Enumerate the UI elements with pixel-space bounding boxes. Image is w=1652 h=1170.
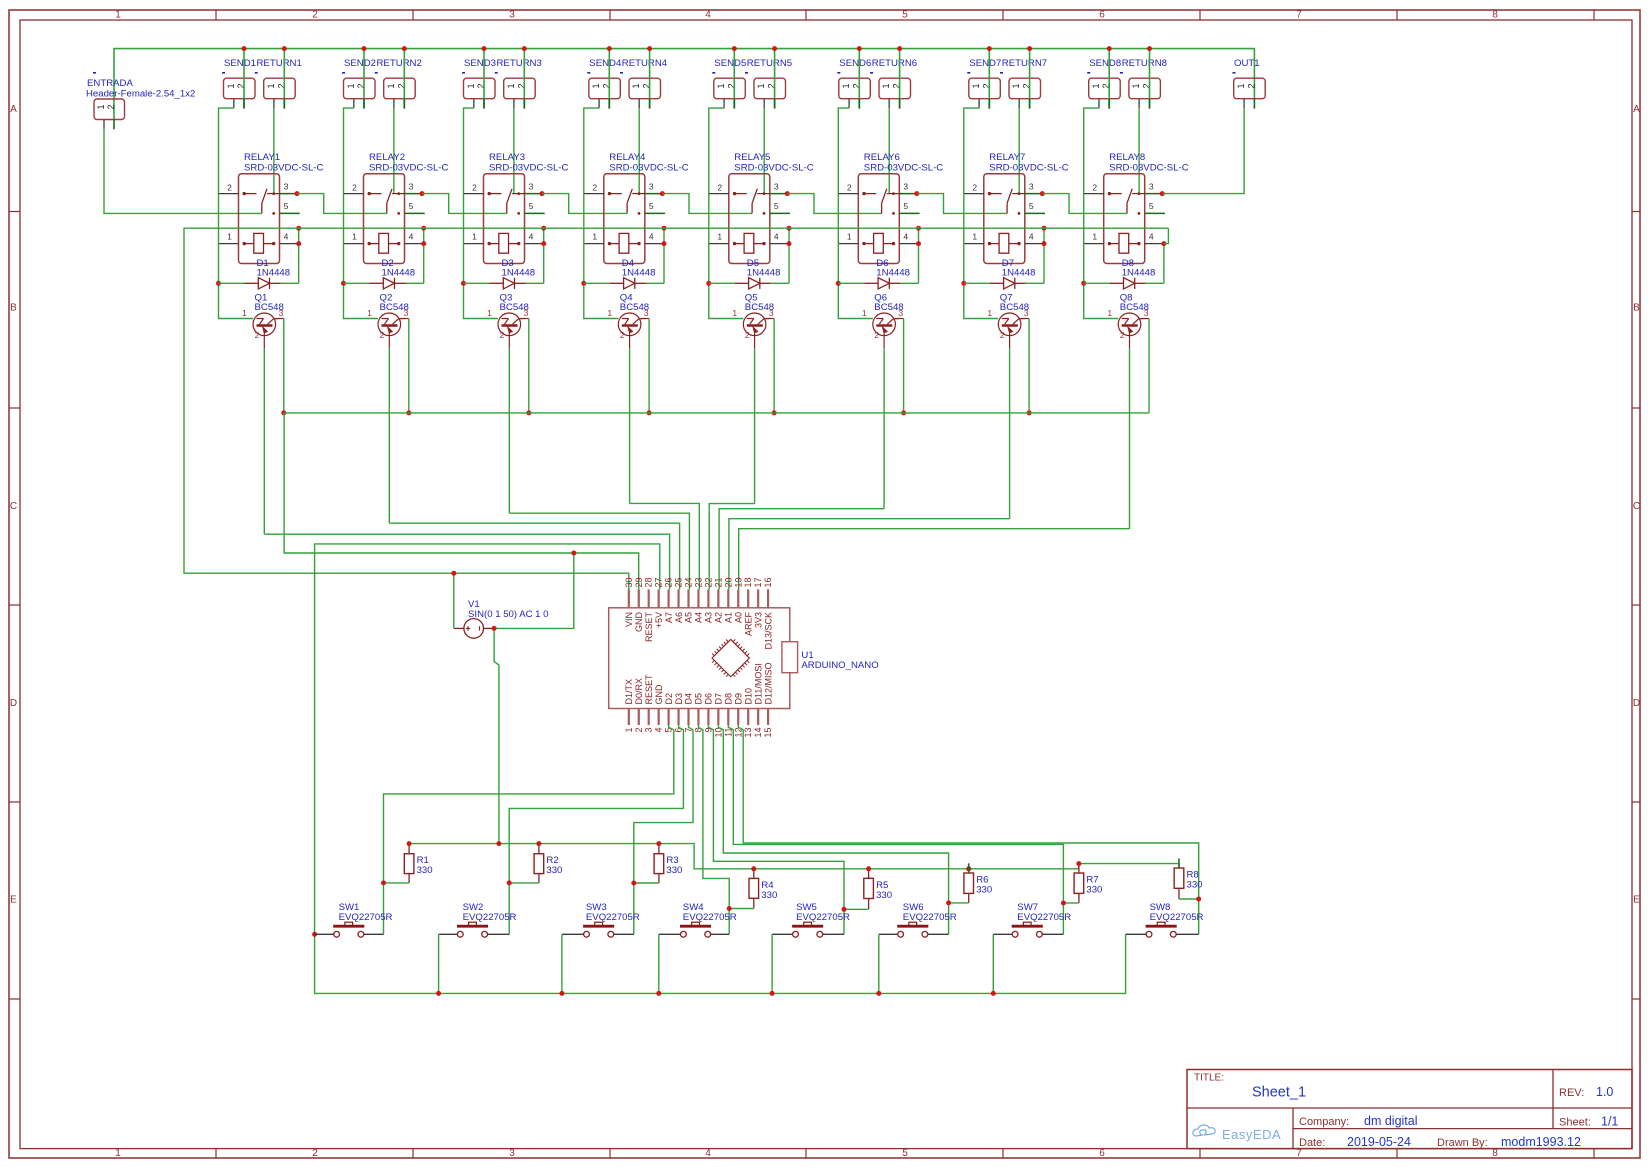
svg-text:A7: A7 — [664, 612, 674, 623]
svg-text:EVQ22705R: EVQ22705R — [796, 912, 850, 923]
junction at RELAY3 pin3 — [540, 191, 545, 196]
junction on top bus at RETURN1 pin2 — [282, 46, 287, 51]
wire: Arduino D3 to R2/SW2 junction — [509, 725, 683, 934]
connector RETURN7 — [1000, 58, 1047, 99]
junction collector bus Q6 — [901, 410, 906, 415]
svg-text:330: 330 — [546, 865, 562, 876]
svg-text:RETURN5: RETURN5 — [747, 58, 792, 69]
connector SEND6 — [837, 58, 871, 99]
RELAY8 pin 2 — [1084, 193, 1104, 195]
svg-text:E: E — [10, 895, 17, 906]
wire: D1 anode link — [219, 282, 245, 284]
U1 pin 21 A2 — [713, 577, 723, 623]
wire: D5 anode link — [709, 282, 735, 284]
svg-text:1: 1 — [1011, 83, 1021, 88]
U1 pin 2 D0/RX — [634, 678, 644, 733]
relay RELAY7 SRD-03VDC-SL-C — [984, 152, 1069, 264]
RETURN4 pin2 stub — [649, 99, 651, 109]
wire: R5 bottom to SW5 — [844, 908, 869, 910]
junction at D3 anode — [461, 281, 466, 286]
junction at RELAY1 pin4 — [296, 241, 301, 246]
junction on top bus at RETURN8 pin2 — [1147, 46, 1152, 51]
connector RETURN4 — [620, 58, 668, 99]
wire: RETURN1 pin1 down to RELAY1 pin3 — [273, 108, 275, 194]
svg-text:3: 3 — [1024, 308, 1029, 318]
wire: D7 cathode link — [1026, 282, 1044, 284]
OUT1 pin 2 stub — [1253, 99, 1255, 109]
U1 pin 3 RESET — [644, 674, 654, 733]
relay RELAY1 SRD-03VDC-SL-C — [239, 152, 324, 264]
svg-text:1: 1 — [1107, 308, 1112, 318]
svg-text:GND: GND — [634, 612, 644, 633]
U1 pin 25 A6 — [674, 577, 684, 623]
RELAY2 pin 2 — [344, 193, 364, 195]
wire: RETURN4 pin1 down to RELAY4 pin3 — [638, 108, 640, 194]
wire: coil supply bus to RELAY4 pin4 and diode D4 cathode — [663, 228, 665, 283]
junction on top bus at SEND1 pin2 — [242, 46, 247, 51]
junction R7 top — [1076, 861, 1081, 866]
SEND1 pin1 stub — [233, 99, 235, 108]
switch SW6 EVQ22705R — [879, 902, 957, 937]
svg-text:3: 3 — [1029, 181, 1034, 191]
svg-text:330: 330 — [1086, 885, 1102, 896]
wire: RELAY3 pin1/pin2 rail down to D3 anode and Q3 base — [464, 194, 499, 319]
RELAY5 pin 4 — [770, 243, 790, 245]
svg-text:1N4448: 1N4448 — [876, 268, 910, 279]
wire: SW7 left to bottom bus — [992, 934, 994, 993]
U1 pin 5 D2 — [664, 693, 674, 733]
junction collector bus Q5 — [772, 410, 777, 415]
junction on top bus at RETURN7 pin2 — [1027, 46, 1032, 51]
wire: RETURN4 pin2 from top bus — [649, 49, 651, 99]
U1 pin 7 D4 — [684, 693, 694, 733]
svg-text:1N4448: 1N4448 — [1002, 268, 1036, 279]
Q5 emitter stub — [754, 336, 756, 349]
wire: RELAY8 pin1/pin2 rail down to D8 anode and Q8 base — [1084, 194, 1119, 319]
svg-text:RETURN3: RETURN3 — [497, 58, 542, 69]
svg-text:A5: A5 — [684, 612, 694, 623]
svg-text:27: 27 — [654, 577, 664, 587]
svg-text:A0: A0 — [733, 612, 743, 623]
RELAY1 pin 4 — [280, 243, 300, 245]
RELAY7 pin 5 — [1025, 212, 1045, 214]
junction V1 minus on GND line — [571, 551, 576, 556]
diode D5 1N4448 — [735, 258, 781, 289]
diode D8 1N4448 — [1110, 258, 1156, 289]
svg-text:4: 4 — [903, 231, 908, 241]
wire: SEND6 pin1 to RELAY6 pin2 — [838, 108, 849, 194]
svg-text:SRD-03VDC-SL-C: SRD-03VDC-SL-C — [1109, 163, 1189, 174]
RELAY7 pin 4 — [1025, 243, 1045, 245]
wire: RELAY2 pin3 to RELAY4 pin5 — [422, 194, 507, 214]
svg-text:1: 1 — [346, 83, 356, 88]
Q6 collector wire to bus — [895, 318, 903, 320]
junction at RELAY3 pin4 — [541, 241, 546, 246]
OUT1 pin 1 stub — [1243, 99, 1245, 109]
SEND2 pin1 stub — [353, 99, 355, 108]
wire: coil supply bus to RELAY6 pin4 and diode D6 cathode — [918, 228, 920, 283]
wire: SEND5 pin1 to RELAY5 pin2 — [709, 108, 724, 194]
U1 pin 13 D10 — [743, 688, 753, 738]
junction R2 top — [536, 841, 541, 846]
SEND8 pin2 stub — [1108, 99, 1110, 109]
RELAY4 pin 1 — [584, 243, 604, 245]
svg-text:23: 23 — [693, 577, 703, 587]
SEND4 pin2 stub — [608, 99, 610, 109]
RELAY4 pin 5 — [645, 212, 665, 214]
junction at RELAY8 pin3 — [1160, 191, 1165, 196]
wire: D3 cathode link — [526, 282, 544, 284]
connector SEND4 — [587, 58, 622, 99]
ENTRADA pin 1 stub — [103, 120, 105, 130]
junction coil bus at RELAY2 — [421, 226, 426, 231]
switch SW5 EVQ22705R — [772, 902, 850, 937]
wire: Q5 emitter down — [754, 348, 756, 503]
connector RETURN2 — [375, 58, 422, 99]
svg-text:EVQ22705R: EVQ22705R — [586, 912, 640, 923]
wire: Q2 emitter down — [388, 348, 390, 523]
RELAY4 pin 4 — [645, 243, 665, 245]
wire: RETURN2 pin1 down to RELAY2 pin3 — [393, 108, 395, 194]
svg-text:1: 1 — [1236, 83, 1246, 88]
svg-text:1: 1 — [987, 308, 992, 318]
svg-text:RETURN1: RETURN1 — [257, 58, 302, 69]
RELAY5 pin 1 — [709, 243, 729, 245]
svg-text:2: 2 — [255, 330, 260, 340]
junction at RELAY7 pin3 — [1040, 191, 1045, 196]
wire: RETURN3 pin2 from top bus — [523, 49, 525, 99]
junction on top bus at RETURN3 pin2 — [522, 46, 527, 51]
svg-text:1: 1 — [624, 728, 634, 733]
junction on top bus at SEND5 pin2 — [732, 46, 737, 51]
SEND3 pin2 stub — [483, 99, 485, 109]
junction V1 plus on VIN line — [451, 571, 456, 576]
svg-text:EasyEDA: EasyEDA — [1222, 1127, 1281, 1142]
wire: Q7 emitter to Arduino A1 — [729, 519, 1010, 590]
svg-text:2: 2 — [634, 728, 644, 733]
junction at V1 minus node — [492, 626, 497, 631]
svg-text:1: 1 — [607, 308, 612, 318]
wire: R8 bottom to SW8 — [1179, 898, 1199, 900]
svg-text:C: C — [1633, 501, 1640, 512]
Q1 emitter stub — [263, 336, 265, 349]
svg-text:SRD-03VDC-SL-C: SRD-03VDC-SL-C — [864, 163, 944, 174]
Q2 emitter stub — [388, 336, 390, 349]
svg-text:4: 4 — [705, 1148, 711, 1159]
RELAY8 pin 1 — [1084, 243, 1104, 245]
RELAY6 pin 1 — [838, 243, 858, 245]
wire: SEND1 pin1 to RELAY1 pin2 — [219, 108, 234, 194]
wire: collector bus down to GND line — [284, 413, 639, 590]
RETURN3 pin2 stub — [523, 99, 525, 109]
svg-text:RELAY3: RELAY3 — [489, 152, 525, 163]
wire: D7 anode link — [964, 282, 990, 284]
junction coil bus at RELAY4 — [662, 226, 667, 231]
svg-text:1N4448: 1N4448 — [622, 268, 656, 279]
svg-text:2: 2 — [1246, 83, 1256, 88]
svg-text:1: 1 — [115, 10, 121, 21]
wire: Q6 emitter down — [883, 348, 885, 509]
svg-text:2: 2 — [472, 182, 477, 192]
junction on top bus at SEND6 pin2 — [857, 46, 862, 51]
connector RETURN5 — [745, 58, 792, 99]
wire: Q6 emitter to Arduino A2 — [719, 509, 884, 590]
U1 pin 16 D13/SCK — [763, 577, 773, 649]
wire: SEND6 pin2 from top bus — [858, 49, 860, 99]
junction at D6 anode — [836, 281, 841, 286]
wire: RETURN3 pin1 down to RELAY3 pin3 — [513, 108, 515, 194]
U1 pin 6 D3 — [674, 693, 684, 733]
svg-text:4: 4 — [1149, 231, 1154, 241]
wire: coil supply bus to RELAY3 pin4 and diode D3 cathode — [543, 228, 545, 283]
RELAY1 pin 5 — [280, 212, 300, 214]
svg-text:1: 1 — [115, 1148, 121, 1159]
junction at D5 anode — [706, 281, 711, 286]
wire: D1 cathode link — [281, 282, 299, 284]
U1 pin 24 A5 — [684, 577, 694, 623]
junction collector bus Q2 — [406, 410, 411, 415]
wire: RETURN7 pin2 from top bus — [1029, 49, 1031, 99]
svg-text:3: 3 — [529, 181, 534, 191]
svg-text:B: B — [1633, 303, 1640, 314]
Q7 emitter stub — [1009, 336, 1011, 349]
svg-text:D8: D8 — [724, 693, 734, 705]
svg-text:RESET: RESET — [644, 612, 654, 643]
RETURN6 pin2 stub — [899, 99, 901, 109]
wire: ENTRADA pin1 down to relay1 pin5 row — [104, 129, 262, 213]
junction R3 top — [656, 841, 661, 846]
SEND6 pin2 stub — [858, 99, 860, 109]
svg-text:1: 1 — [716, 83, 726, 88]
wire: D5 cathode link — [771, 282, 789, 284]
svg-text:Drawn By:: Drawn By: — [1437, 1137, 1488, 1149]
relay RELAY5 SRD-03VDC-SL-C — [729, 152, 814, 264]
svg-text:D1/TX: D1/TX — [624, 679, 634, 705]
junction R6 bottom — [946, 900, 951, 905]
svg-text:D13/SCK: D13/SCK — [763, 612, 773, 650]
RELAY1 pin 1 — [219, 243, 239, 245]
svg-text:SW3: SW3 — [586, 902, 607, 913]
svg-text:8: 8 — [1492, 1148, 1498, 1159]
svg-text:19: 19 — [733, 577, 743, 587]
svg-text:17: 17 — [753, 577, 763, 587]
RELAY2 pin 5 — [405, 212, 425, 214]
svg-text:D10: D10 — [743, 688, 753, 705]
svg-text:1: 1 — [472, 231, 477, 241]
switch SW1 EVQ22705R — [315, 902, 393, 937]
svg-text:Sheet:: Sheet: — [1559, 1117, 1591, 1129]
wire: RETURN1 pin2 from top bus — [283, 49, 285, 99]
RETURN1 pin2 stub — [283, 99, 285, 109]
svg-text:EVQ22705R: EVQ22705R — [683, 912, 737, 923]
svg-text:SW4: SW4 — [683, 902, 704, 913]
SEND7 pin2 stub — [988, 99, 990, 109]
svg-text:8: 8 — [1492, 10, 1498, 21]
svg-text:RETURN4: RETURN4 — [622, 58, 668, 69]
RELAY3 pin 5 — [525, 212, 545, 214]
RETURN5 pin2 stub — [774, 99, 776, 109]
svg-text:5: 5 — [284, 201, 289, 211]
Q6 emitter stub — [883, 336, 885, 349]
U1 pin 28 RESET — [644, 577, 654, 642]
svg-text:3: 3 — [1149, 181, 1154, 191]
wire: coil supply bus to RELAY8 pin4 and diode D8 cathode — [1163, 244, 1165, 284]
svg-text:EVQ22705R: EVQ22705R — [1150, 912, 1204, 923]
resistor R1 330 — [404, 844, 432, 883]
wire: Q7 emitter down — [1009, 348, 1011, 519]
wire: D6 cathode link — [900, 282, 918, 284]
svg-text:7: 7 — [1296, 10, 1302, 21]
wire: RETURN6 pin2 from top bus — [899, 49, 901, 99]
svg-text:RETURN2: RETURN2 — [377, 58, 422, 69]
svg-text:SEND6: SEND6 — [839, 58, 871, 69]
junction at RELAY1 pin3 — [295, 191, 300, 196]
Q4 collector wire to bus — [641, 318, 649, 320]
RETURN8 pin2 stub — [1149, 99, 1151, 109]
relay RELAY3 SRD-03VDC-SL-C — [484, 152, 569, 264]
svg-text:RETURN8: RETURN8 — [1122, 58, 1167, 69]
svg-text:A3: A3 — [704, 612, 714, 623]
svg-text:+5V: +5V — [654, 612, 664, 628]
svg-text:2: 2 — [717, 182, 722, 192]
wire: Q1 emitter to Arduino A7 — [264, 534, 669, 589]
wire: Arduino D7 to R6/SW6 junction — [718, 725, 948, 934]
svg-text:VIN: VIN — [624, 612, 634, 627]
wire: RELAY7 pin1/pin2 rail down to D7 anode and Q7 base — [964, 194, 999, 319]
svg-text:3: 3 — [649, 181, 654, 191]
U1 pin 12 D9 — [733, 693, 743, 738]
wire: RELAY2 pin1/pin2 rail down to D2 anode and Q2 base — [344, 194, 379, 319]
wire: SW2 left to bottom bus — [438, 934, 440, 993]
U1 pin 4 GND — [654, 684, 664, 733]
U1 pin 10 D7 — [713, 693, 723, 738]
wire: Q2 emitter to Arduino A6 — [389, 523, 679, 589]
wire: Arduino +5V to SW1 and bottom switch bus — [315, 544, 1126, 994]
U1 pin 30 VIN — [624, 577, 634, 627]
junction coil bus at RELAY1 — [296, 226, 301, 231]
svg-text:SEND1: SEND1 — [224, 58, 256, 69]
junction R1 top — [407, 841, 412, 846]
wire: SEND8 pin1 to RELAY8 pin2 — [1084, 108, 1099, 194]
Q5 collector wire to bus — [766, 318, 774, 320]
svg-text:3V3: 3V3 — [753, 612, 763, 628]
junction bottom bus SW4 — [656, 991, 661, 996]
svg-text:30: 30 — [624, 577, 634, 587]
svg-text:SW5: SW5 — [796, 902, 817, 913]
svg-text:OUT1: OUT1 — [1234, 58, 1260, 69]
svg-text:A2: A2 — [714, 612, 724, 623]
wire: RELAY4 pin3 to RELAY6 pin5 — [662, 194, 752, 214]
svg-text:28: 28 — [644, 577, 654, 587]
svg-text:3: 3 — [409, 181, 414, 191]
wire: Arduino D2 to R1/SW1 junction — [384, 725, 674, 934]
junction on top bus at RETURN5 pin2 — [772, 46, 777, 51]
junction at RELAY8 pin4 — [1161, 241, 1166, 246]
svg-text:3: 3 — [769, 308, 774, 318]
junction bottom bus SW5 — [770, 991, 775, 996]
wire: collector bus — [284, 412, 1149, 414]
relay RELAY2 SRD-03VDC-SL-C — [364, 152, 449, 264]
junction at RELAY2 pin3 — [420, 191, 425, 196]
RETURN3 pin1 stub — [513, 99, 515, 108]
junction coil bus at RELAY5 — [787, 226, 792, 231]
RELAY8 pin 4 — [1145, 243, 1165, 245]
wire: RELAY5 pin1/pin2 rail down to D5 anode and Q5 base — [709, 194, 744, 319]
Q8 emitter stub — [1129, 336, 1131, 349]
RETURN2 pin2 stub — [403, 99, 405, 109]
wire: main top bus from ENTRADA pin2 to OUT1 pin2 — [114, 49, 1254, 120]
svg-text:D11/MOSI: D11/MOSI — [753, 663, 763, 704]
wire: Arduino D5 to R4/SW4 junction — [698, 725, 729, 934]
svg-text:D0/RX: D0/RX — [634, 678, 644, 705]
Q1 collector wire to bus — [276, 318, 284, 320]
svg-text:4: 4 — [409, 231, 414, 241]
svg-text:330: 330 — [876, 890, 892, 901]
svg-text:1: 1 — [242, 308, 247, 318]
svg-text:1: 1 — [862, 308, 867, 318]
U1 pin 27 +5V — [654, 577, 664, 628]
RELAY1 pin 3 — [280, 193, 300, 195]
junction V1 branch on resistor bus — [496, 841, 501, 846]
RELAY1 pin 2 — [219, 193, 239, 195]
wire: RELAY3 pin3 to RELAY5 pin5 — [542, 194, 627, 214]
wire: Q8 emitter down — [1129, 348, 1131, 529]
relay RELAY4 SRD-03VDC-SL-C — [604, 152, 689, 264]
junction at RELAY4 pin4 — [662, 241, 667, 246]
wire: R6 bottom to SW6 — [949, 902, 969, 904]
connector SEND3 — [462, 58, 496, 99]
RELAY2 pin 4 — [405, 243, 425, 245]
svg-text:Header-Female-2.54_1x2: Header-Female-2.54_1x2 — [86, 89, 195, 100]
junction bottom bus SW2 — [436, 991, 441, 996]
Q4 emitter stub — [629, 336, 631, 349]
wire: RELAY7 pin3 to RELAY9 pin5 — [1042, 194, 1127, 214]
svg-text:1: 1 — [717, 231, 722, 241]
svg-text:3: 3 — [279, 308, 284, 318]
junction R3 bottom — [631, 881, 636, 886]
svg-text:2: 2 — [312, 1148, 318, 1159]
junction R7 bottom — [1061, 901, 1066, 906]
svg-text:1N4448: 1N4448 — [257, 268, 291, 279]
RETURN6 pin1 stub — [888, 99, 890, 108]
svg-text:2: 2 — [1092, 182, 1097, 192]
U1 pin 8 D5 — [693, 693, 703, 733]
transistor Q2 BC548 — [367, 293, 409, 341]
wire: SW6 left to bottom bus — [878, 934, 880, 993]
svg-text:4: 4 — [529, 231, 534, 241]
junction coil bus at RELAY7 — [1042, 226, 1047, 231]
wire: RELAY5 pin3 to RELAY7 pin5 — [787, 194, 881, 214]
junction on top bus at SEND4 pin2 — [607, 46, 612, 51]
svg-text:2: 2 — [620, 330, 625, 340]
svg-text:TITLE:: TITLE: — [1194, 1073, 1224, 1084]
transistor Q5 BC548 — [732, 293, 774, 341]
wire: Q3 emitter to Arduino A5 — [509, 513, 689, 589]
RELAY2 pin 1 — [344, 243, 364, 245]
svg-text:1: 1 — [1091, 83, 1101, 88]
diode D7 1N4448 — [990, 258, 1036, 289]
wire: D2 anode link — [344, 282, 370, 284]
svg-text:2: 2 — [312, 10, 318, 21]
svg-text:EVQ22705R: EVQ22705R — [339, 912, 393, 923]
svg-text:21: 21 — [713, 577, 723, 587]
svg-text:SRD-03VDC-SL-C: SRD-03VDC-SL-C — [244, 163, 324, 174]
svg-text:RELAY8: RELAY8 — [1109, 152, 1145, 163]
connector SEND8 — [1087, 58, 1121, 99]
svg-text:2: 2 — [106, 104, 116, 109]
connector ENTRADA (Header-Female-2.54_1x2) — [86, 72, 195, 120]
svg-text:3: 3 — [524, 308, 529, 318]
